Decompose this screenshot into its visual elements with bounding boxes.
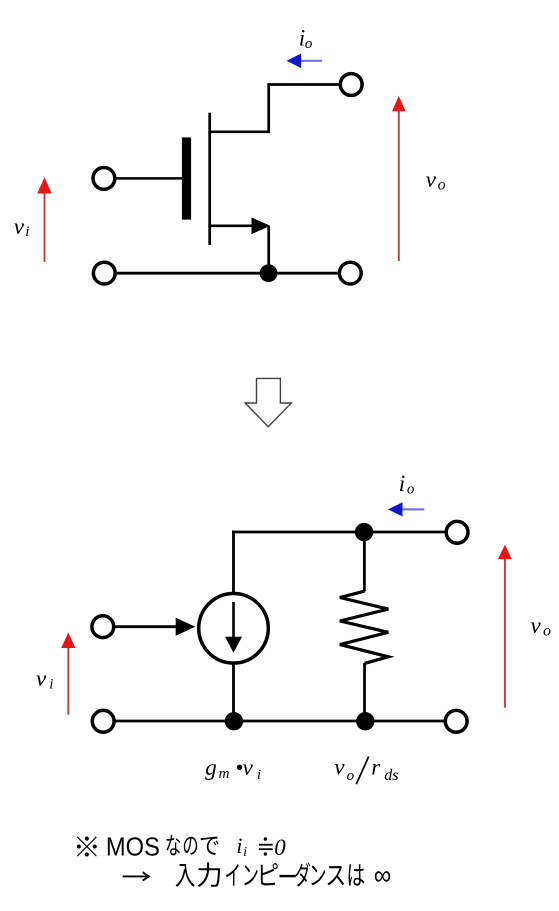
svg-text:MOS: MOS bbox=[106, 834, 160, 862]
svg-text:o: o bbox=[305, 36, 313, 52]
svg-text:i: i bbox=[236, 833, 242, 858]
svg-text:ds: ds bbox=[384, 767, 398, 784]
svg-text:o: o bbox=[438, 177, 446, 194]
svg-text:g: g bbox=[205, 755, 217, 780]
svg-text:i: i bbox=[257, 767, 261, 783]
svg-text:o: o bbox=[407, 481, 415, 497]
svg-text:m: m bbox=[219, 766, 230, 782]
svg-text:v: v bbox=[36, 666, 47, 691]
svg-text:o: o bbox=[347, 768, 355, 784]
svg-text:0: 0 bbox=[274, 835, 286, 860]
svg-text:i: i bbox=[399, 471, 405, 496]
svg-text:v: v bbox=[14, 214, 25, 239]
svg-text:v: v bbox=[426, 167, 437, 192]
svg-text:v: v bbox=[334, 754, 345, 779]
svg-text:i: i bbox=[25, 224, 29, 240]
svg-text:o: o bbox=[543, 623, 551, 640]
svg-text:r: r bbox=[371, 754, 381, 779]
svg-text:∞: ∞ bbox=[374, 860, 392, 891]
svg-text:v: v bbox=[531, 613, 542, 638]
svg-text:i: i bbox=[49, 677, 53, 693]
svg-text:i: i bbox=[243, 844, 247, 859]
svg-text:v: v bbox=[243, 755, 254, 780]
